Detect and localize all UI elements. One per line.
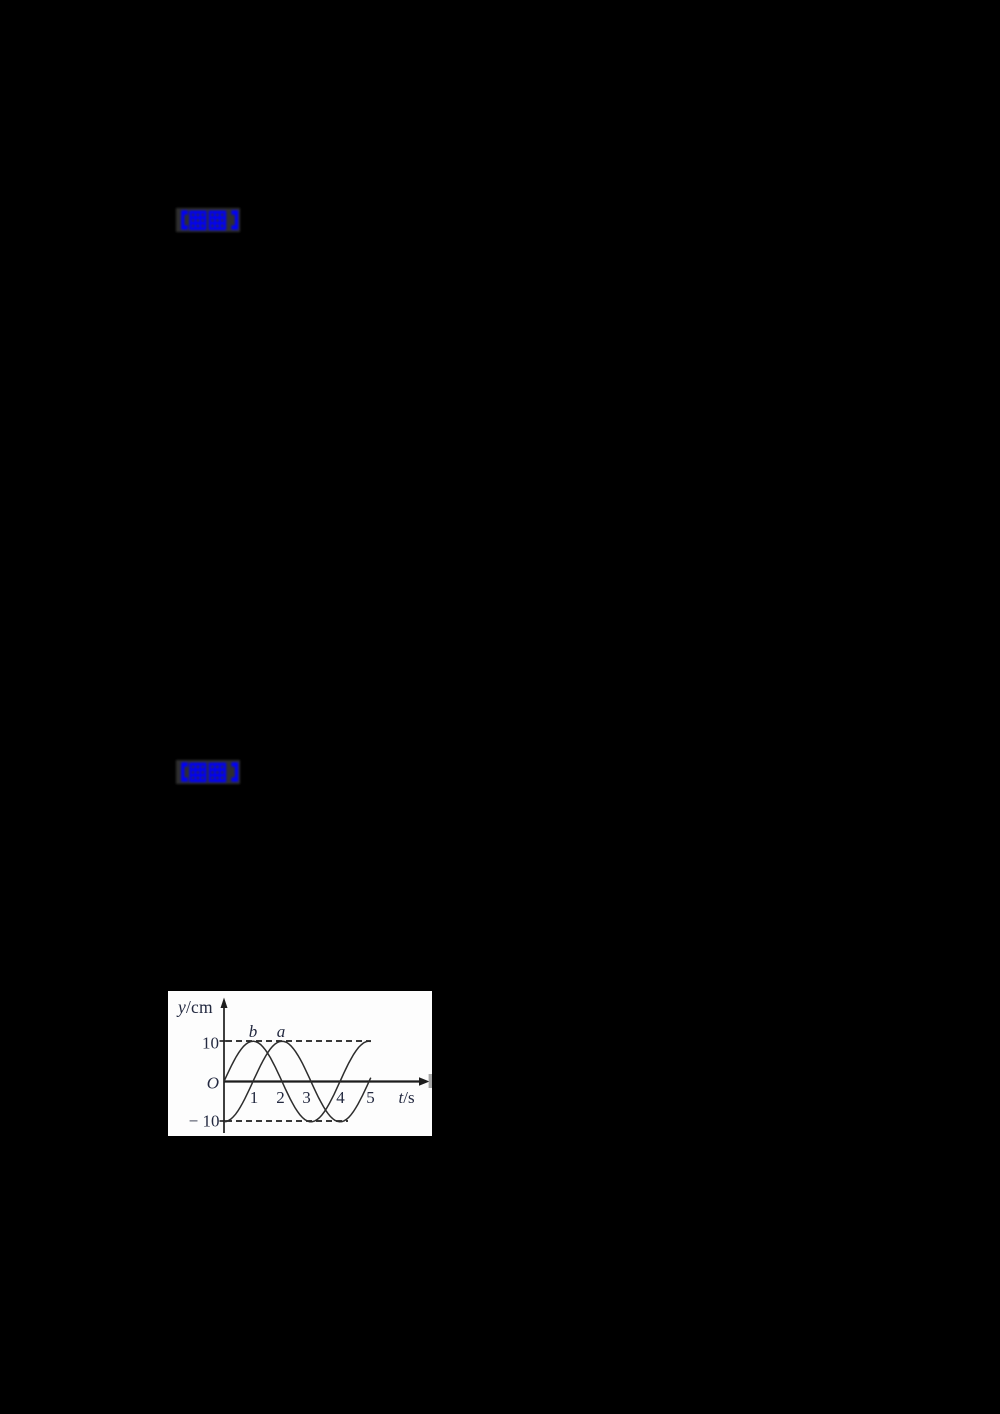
white figure background — [168, 991, 432, 1136]
character blob 2 — [209, 211, 226, 231]
tick at +10 — [220, 1040, 227, 1042]
curve a — [224, 1041, 371, 1122]
t axis arrowhead — [419, 1077, 430, 1086]
character blob 1 — [189, 211, 206, 231]
y axis — [223, 1005, 225, 1133]
svg-text:− 10: − 10 — [189, 1112, 220, 1131]
left bracket 【 — [181, 210, 188, 230]
character blob 2 — [209, 763, 226, 783]
label box 【解析】 — [172, 204, 244, 236]
svg-text:2: 2 — [276, 1088, 285, 1107]
curve b — [224, 1041, 371, 1122]
oscillation graph figure — [168, 991, 432, 1136]
svg-text:t/s: t/s — [399, 1088, 415, 1107]
svg-text:y/cm: y/cm — [176, 997, 213, 1017]
right bracket 】 — [231, 762, 238, 782]
svg-text:O: O — [207, 1074, 219, 1093]
svg-text:b: b — [249, 1022, 258, 1041]
right bracket 】 — [231, 210, 238, 230]
t axis — [224, 1080, 422, 1082]
svg-text:4: 4 — [336, 1088, 345, 1107]
dashed line +10 — [226, 1040, 371, 1042]
svg-text:a: a — [277, 1022, 286, 1041]
y axis arrowhead — [221, 998, 228, 1009]
dark highlight box — [176, 760, 240, 784]
gray artifact at right edge — [429, 1074, 432, 1088]
svg-text:3: 3 — [302, 1088, 311, 1107]
svg-text:5: 5 — [366, 1088, 375, 1107]
left bracket 【 — [181, 762, 188, 782]
svg-text:1: 1 — [250, 1088, 259, 1107]
dark highlight box — [176, 208, 240, 232]
svg-text:10: 10 — [202, 1034, 219, 1053]
dashed line -10 — [226, 1120, 348, 1122]
label box 【点评】 — [172, 756, 244, 788]
character blob 1 — [189, 763, 206, 783]
tick at -10 — [220, 1120, 227, 1122]
